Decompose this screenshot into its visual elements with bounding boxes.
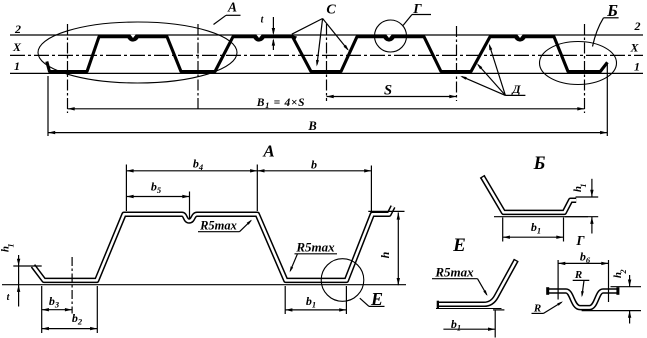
- svg-text:X: X: [629, 41, 639, 55]
- svg-text:1: 1: [634, 60, 640, 74]
- wire tick detail E: [493, 309, 504, 311]
- svg-text:R: R: [533, 303, 541, 315]
- dimension b1 detail B: [503, 236, 564, 238]
- svg-text:1: 1: [7, 244, 16, 248]
- dimension b6 groove width: [558, 262, 608, 264]
- wire ext b2/b3 left: [41, 286, 43, 333]
- wire ext b6 right: [608, 260, 610, 302]
- wire ext b1E right: [494, 311, 496, 338]
- wire left edge extension: [47, 76, 49, 136]
- svg-text:h: h: [378, 251, 392, 258]
- wire ext b1B left: [502, 218, 504, 242]
- svg-text:1: 1: [14, 59, 20, 73]
- svg-text:В1 = 4×S: В1 = 4×S: [256, 97, 306, 110]
- dimension B (overall width): [48, 132, 607, 134]
- svg-text:R: R: [574, 269, 582, 281]
- svg-text:В: В: [307, 119, 316, 133]
- detail B profile (double line): [483, 177, 577, 213]
- wire ext b right: [370, 166, 372, 213]
- dimension h (profile height): [397, 212, 399, 285]
- svg-text:А: А: [262, 142, 274, 161]
- svg-text:1: 1: [579, 184, 588, 188]
- dimension b3: [42, 309, 72, 311]
- wire cut-end cap detail B: [480, 175, 485, 178]
- detail ellipse B around right end: [540, 42, 617, 85]
- node line-2 top fibre reference line: [10, 34, 643, 36]
- wire rib centreline 2: [197, 24, 199, 110]
- detail circle G around dimple 3: [375, 20, 407, 52]
- dimension b2: [42, 328, 98, 330]
- svg-text:Б: Б: [606, 1, 618, 20]
- wire rib centreline 1: [67, 24, 69, 113]
- wire ext h2 top tick: [611, 286, 642, 288]
- wire ext h1B bottom tick: [565, 216, 598, 218]
- svg-text:А: А: [227, 0, 237, 15]
- wire cut-end cap detail E: [514, 259, 519, 262]
- dimension h2 groove depth: [629, 275, 631, 287]
- wire ext b1B right: [563, 218, 565, 242]
- dimension b1 in detail A: [285, 309, 346, 311]
- wire ext h top tick: [368, 210, 404, 212]
- detail ellipse A around left end: [38, 22, 237, 83]
- svg-text:b: b: [311, 158, 317, 172]
- wire rib centreline 3: [326, 24, 328, 101]
- wire ext b4 left: [125, 165, 127, 212]
- svg-text:Е: Е: [452, 235, 466, 256]
- dimension B1 = 4xS: [68, 108, 585, 110]
- svg-text:Д: Д: [511, 82, 521, 96]
- wire ext b5 groove axis: [189, 192, 191, 220]
- detail E profile (double line): [438, 261, 516, 305]
- wire ext h2 bottom tick: [582, 310, 641, 312]
- dimension b5 (to groove axis): [126, 196, 189, 198]
- dimension b4 (flange width): [126, 170, 371, 172]
- end cap detail E: [437, 301, 439, 308]
- svg-text:2: 2: [634, 19, 641, 33]
- svg-text:S: S: [384, 83, 392, 99]
- wire ext hook top tick: [13, 265, 41, 267]
- node baseline of detail B: [494, 216, 588, 218]
- svg-text:2: 2: [14, 22, 21, 36]
- wire ext b4/b shared: [256, 165, 258, 212]
- wire ext b6 left: [557, 260, 559, 300]
- svg-text:X: X: [12, 40, 22, 54]
- svg-text:Б: Б: [533, 154, 546, 174]
- wire ext b1 left: [284, 286, 286, 314]
- wire ext b2 right: [96, 286, 98, 333]
- svg-text:R5max: R5max: [199, 219, 237, 233]
- wire rib centreline 4: [456, 26, 458, 101]
- node line-1 bottom fibre reference line: [10, 72, 643, 74]
- dimension t (sheet thickness): [272, 17, 274, 34]
- wire trough1 centreline detail A: [71, 257, 73, 314]
- svg-text:С: С: [326, 3, 336, 18]
- end caps detail G: [546, 287, 549, 295]
- wire rib centreline 5: [584, 24, 586, 113]
- svg-text:2: 2: [619, 270, 628, 275]
- svg-text:Г: Г: [575, 233, 585, 248]
- dimple groove 3 on top flange: [383, 36, 396, 42]
- dimension S (rib pitch): [327, 96, 457, 98]
- svg-text:R5max: R5max: [295, 240, 335, 255]
- node X neutral axis dash-dot line: [10, 54, 643, 56]
- detail circle E marker: [321, 259, 364, 302]
- node baseline of detail A: [2, 284, 406, 286]
- dimple groove 1 on top flange: [127, 36, 140, 42]
- dimple groove 4 on top flange: [514, 36, 527, 42]
- dimension b1 detail E: [443, 328, 495, 330]
- wire right edge extension: [606, 64, 608, 136]
- wire ext h1B top tick: [576, 196, 599, 198]
- profile main cross-section (thick): [47, 37, 608, 72]
- detail A profile (double line): [33, 207, 393, 281]
- detail G groove profile (double line): [548, 291, 618, 308]
- dimension h1 (edge stiffener height): [18, 255, 20, 307]
- node baseline of detail E: [436, 308, 502, 310]
- svg-text:R5max: R5max: [434, 265, 474, 280]
- wire ext b1 right: [345, 286, 347, 314]
- dimple groove 2 on top flange: [253, 36, 266, 42]
- dimension h1 detail B: [591, 179, 593, 197]
